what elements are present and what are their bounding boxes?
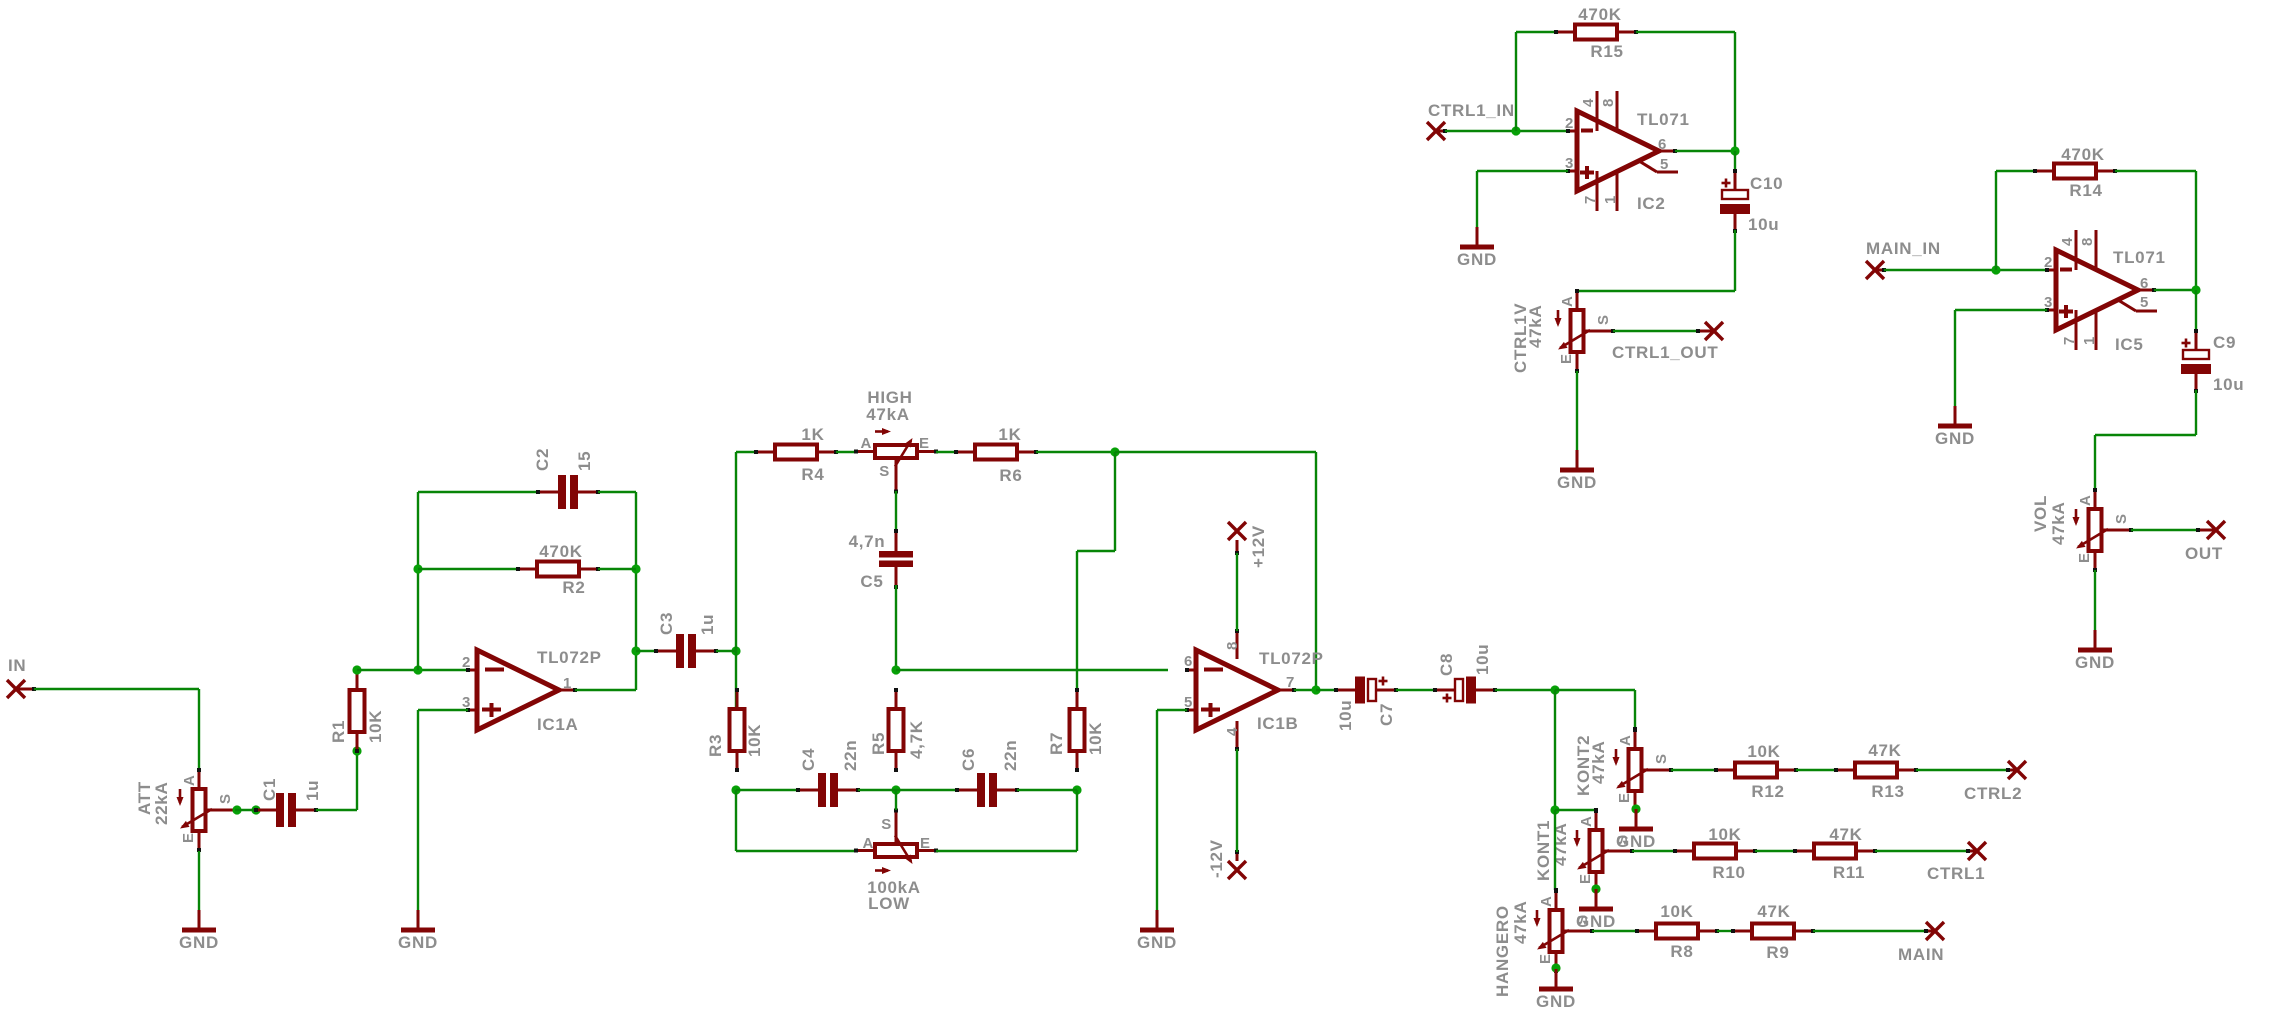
svg-text:R5: R5	[869, 732, 888, 755]
svg-text:4,7K: 4,7K	[907, 720, 926, 759]
svg-text:GND: GND	[179, 933, 219, 952]
value 10K of R3	[745, 724, 764, 757]
pin number 1 of IC1A	[563, 675, 572, 692]
svg-text:470K: 470K	[2061, 145, 2104, 164]
pin label E of KONT2	[1616, 792, 1633, 803]
pin label A of KONT1	[1578, 815, 1595, 827]
name label C9	[2213, 333, 2236, 352]
pin number 6 of IC1B	[1184, 653, 1193, 670]
junction HANGERO E	[1551, 963, 1560, 972]
name label R2	[562, 578, 585, 597]
junction CTRL1_IN / R15	[1511, 126, 1520, 135]
ground below IC5 pin3	[1938, 406, 1972, 426]
ground below KONT1	[1579, 889, 1613, 909]
wire center to C6	[896, 789, 957, 791]
svg-text:GND: GND	[1137, 933, 1177, 952]
resistor R6	[954, 445, 1038, 460]
wire C7 to C8	[1396, 689, 1435, 691]
value 10u of C10	[1748, 215, 1779, 234]
pin label E of ATT	[180, 832, 197, 843]
value 47K of R11	[1829, 825, 1862, 844]
capacitor C5	[879, 529, 913, 589]
svg-text:A: A	[1538, 895, 1555, 907]
svg-text:A: A	[1617, 734, 1634, 746]
junction IC5 output	[2191, 285, 2200, 294]
wire C6 to R7	[1017, 789, 1077, 791]
pin stub CTRL1V A	[1575, 289, 1579, 310]
polarized capacitor C8	[1433, 677, 1497, 704]
label of ground below IC1A	[398, 933, 438, 952]
svg-text:22n: 22n	[841, 740, 860, 771]
pin label S of HANGERO	[1574, 914, 1591, 925]
name label C1	[260, 778, 279, 801]
name label R4	[801, 465, 824, 484]
junction R7 bottom	[1072, 785, 1081, 794]
wire HANGERO S to R8	[1592, 930, 1637, 932]
wire stub OUT	[2196, 528, 2216, 532]
svg-text:S: S	[1614, 834, 1631, 845]
svg-text:A: A	[2077, 494, 2094, 506]
svg-text:GND: GND	[2075, 653, 2115, 672]
label of ground below KONT1	[1576, 912, 1616, 931]
junction IC1B output	[1311, 685, 1320, 694]
wire R15 to output loop	[1636, 32, 1735, 151]
pin label A of CTRL1V	[1559, 295, 1576, 307]
name label IC5	[2115, 335, 2144, 354]
pin +12V	[1228, 522, 1246, 540]
svg-text:1K: 1K	[801, 425, 824, 444]
wire IN to ATT	[34, 689, 199, 770]
junction R3 bottom	[731, 785, 740, 794]
svg-text:C6: C6	[959, 748, 978, 771]
wire C1 to R1	[316, 751, 357, 810]
svg-text:8: 8	[1600, 98, 1617, 107]
junction to KONT1	[1550, 805, 1559, 814]
svg-text:R7: R7	[1047, 732, 1066, 755]
value 470K of R2	[539, 542, 582, 561]
node IN label	[8, 656, 26, 675]
label of ground below HANGERO	[1536, 992, 1576, 1011]
svg-text:7: 7	[1286, 674, 1295, 691]
capacitor C4	[796, 773, 860, 807]
svg-text:R8: R8	[1670, 942, 1693, 961]
resistor R11	[1793, 844, 1877, 859]
svg-text:GND: GND	[1935, 429, 1975, 448]
wire jog down to R7	[1077, 452, 1115, 750]
polarized capacitor C7	[1334, 677, 1398, 704]
value 1u of C1	[303, 780, 322, 801]
svg-text:S: S	[1653, 753, 1670, 764]
svg-text:CTRL1_OUT: CTRL1_OUT	[1612, 343, 1718, 362]
pin label S of VOL	[2113, 513, 2130, 524]
node CTRL1 label	[1927, 864, 1985, 883]
svg-text:7: 7	[1582, 195, 1599, 204]
pin label S of CTRL1V	[1595, 314, 1612, 325]
wire VOL S to OUT	[2131, 529, 2198, 531]
part value TL072P of IC1A	[537, 648, 602, 667]
svg-text:47K: 47K	[1868, 741, 1901, 760]
wire C9 to VOL	[2095, 390, 2196, 490]
value 470K of R14	[2061, 145, 2104, 164]
pin label A of VOL	[2077, 494, 2094, 506]
pin stub HANGERO A	[1554, 888, 1558, 910]
wire VOL E to GND	[2094, 570, 2096, 630]
name label C3	[657, 612, 676, 635]
svg-text:A: A	[1559, 295, 1576, 307]
svg-text:2: 2	[1565, 115, 1574, 132]
svg-text:E: E	[920, 835, 931, 852]
pin number 8 of IC5	[2079, 237, 2096, 246]
pin stub VOL A	[2093, 488, 2097, 509]
svg-text:10K: 10K	[1708, 825, 1741, 844]
capacitor C3	[654, 634, 718, 668]
junction R2 left	[413, 564, 422, 573]
pin MAIN	[1926, 922, 1944, 940]
wire to LOW pot A	[736, 790, 856, 851]
value 1K of R6	[998, 425, 1021, 444]
svg-text:A: A	[181, 774, 198, 786]
junction feedback at pin2	[413, 665, 422, 674]
name label CTRL1V	[1511, 303, 1530, 373]
label of ground below KONT2	[1616, 832, 1656, 851]
svg-text:4: 4	[2059, 237, 2076, 246]
name label HIGH	[867, 388, 912, 407]
svg-text:1u: 1u	[698, 614, 717, 635]
part value TL071 of IC5	[2113, 248, 2166, 267]
name label IC2	[1637, 194, 1666, 213]
label of ground below IC5 pin3	[1935, 429, 1975, 448]
potentiometer HANGERO	[1534, 889, 1595, 973]
svg-text:GND: GND	[1557, 473, 1597, 492]
pin number 4 of IC5	[2059, 237, 2076, 246]
resistor R10	[1673, 844, 1757, 859]
name label C7	[1377, 703, 1396, 726]
svg-text:470K: 470K	[1578, 5, 1621, 24]
svg-text:6: 6	[1184, 653, 1193, 670]
name label R5	[869, 732, 888, 755]
svg-text:R15: R15	[1590, 42, 1623, 61]
supply label +12V	[1249, 525, 1268, 568]
potentiometer KONT1	[1574, 809, 1635, 893]
svg-text:E: E	[919, 435, 930, 452]
resistor R4	[754, 445, 838, 460]
svg-text:E: E	[1616, 792, 1633, 803]
wire node down to HANGERO	[1554, 810, 1556, 890]
svg-text:S: S	[879, 463, 890, 480]
value 47kA of KONT2	[1589, 741, 1608, 784]
svg-text:1u: 1u	[303, 780, 322, 801]
ground below HANGERO	[1539, 969, 1573, 989]
name label R10	[1712, 863, 1745, 882]
capacitor C6	[955, 773, 1019, 807]
wire IC5 pin3 to GND	[1955, 310, 2047, 406]
wire R2 right	[598, 568, 636, 570]
svg-text:C5: C5	[860, 572, 883, 591]
svg-text:C4: C4	[799, 748, 818, 771]
wire pin4 to -12V	[1236, 749, 1238, 852]
svg-text:10u: 10u	[2213, 375, 2244, 394]
op-amp IC1B	[1185, 629, 1296, 751]
resistor R8	[1635, 924, 1719, 939]
pin label S of ATT	[217, 793, 234, 804]
svg-text:CTRL1: CTRL1	[1927, 864, 1985, 883]
label of ground below VOL	[2075, 653, 2115, 672]
pin number 6 of IC5	[2140, 275, 2149, 292]
pin number 7 of IC5	[2061, 336, 2078, 345]
node OUT label	[2185, 544, 2223, 563]
wire R6 to junction	[1036, 451, 1115, 453]
junction C3 right	[731, 646, 740, 655]
svg-text:R9: R9	[1766, 943, 1789, 962]
name label R13	[1871, 782, 1904, 801]
potentiometer HIGH	[854, 428, 938, 494]
junction KONT1 E	[1591, 884, 1600, 893]
value 47kA of HIGH	[866, 405, 909, 424]
svg-text:MAIN: MAIN	[1898, 945, 1944, 964]
svg-text:GND: GND	[1536, 992, 1576, 1011]
junction R1 top	[352, 665, 361, 674]
junction C3 left	[631, 646, 640, 655]
svg-text:-12V: -12V	[1207, 839, 1226, 878]
potentiometer CTRL1V	[1555, 289, 1616, 373]
wire MAIN_IN to pin2	[1884, 269, 2047, 271]
value 22n of C6	[1001, 740, 1020, 771]
potentiometer ATT	[177, 768, 238, 852]
ground below ATT	[182, 910, 216, 930]
svg-text:E: E	[1537, 953, 1554, 964]
value 47kA of CTRL1V	[1526, 305, 1545, 348]
svg-text:10K: 10K	[1660, 902, 1693, 921]
wire R4 row left	[736, 451, 756, 453]
wire IC5 output	[2154, 289, 2196, 291]
value 10K of R12	[1747, 742, 1780, 761]
svg-text:10K: 10K	[1747, 742, 1780, 761]
ground below IC1A	[401, 910, 435, 930]
svg-text:MAIN_IN: MAIN_IN	[1866, 239, 1941, 258]
resistor R15	[1554, 25, 1638, 40]
svg-text:5: 5	[2140, 294, 2149, 311]
part value TL071 of IC2	[1637, 110, 1690, 129]
svg-text:10u: 10u	[1748, 215, 1779, 234]
ground below IC2 pin3	[1460, 227, 1494, 247]
wire bottom row left	[736, 789, 798, 791]
label of ground below IC2 pin3	[1457, 250, 1497, 269]
wire node down	[1554, 690, 1556, 810]
wire R4 to HIGH pot	[836, 451, 856, 453]
pin number 1 of IC5	[2081, 336, 2098, 345]
value 4,7K of R5	[907, 720, 926, 759]
svg-text:LOW: LOW	[868, 894, 910, 913]
junction IC2 output	[1730, 146, 1739, 155]
wire HIGH S to C5	[895, 491, 897, 531]
pin number 5 of IC1B	[1184, 694, 1193, 711]
pin number 5 of IC2	[1660, 156, 1669, 173]
wire stub at IN	[16, 687, 36, 691]
wire R11 to CTRL1	[1875, 850, 1968, 852]
svg-text:47kA: 47kA	[1526, 305, 1545, 348]
wire stub +12V	[1235, 540, 1239, 555]
svg-text:15: 15	[575, 451, 594, 471]
svg-text:TL071: TL071	[2113, 248, 2166, 267]
pin label E of KONT1	[1577, 873, 1594, 884]
svg-text:47kA: 47kA	[866, 405, 909, 424]
junction R1 bottom	[352, 746, 361, 755]
pin label E of LOW	[920, 835, 931, 852]
pin CTRL2	[2008, 761, 2026, 779]
wire R14 to output loop	[2115, 171, 2196, 290]
svg-text:IC1A: IC1A	[537, 715, 579, 734]
name label C5	[860, 572, 883, 591]
svg-text:R3: R3	[706, 734, 725, 757]
pin label A of KONT2	[1617, 734, 1634, 746]
wire C4 to center	[858, 789, 896, 791]
svg-text:10K: 10K	[745, 724, 764, 757]
name label ATT	[135, 781, 154, 815]
name label R11	[1833, 863, 1865, 882]
value 10K of R1	[366, 710, 385, 743]
wire output to C9	[2195, 290, 2197, 332]
ground below CTRL1V	[1560, 450, 1594, 470]
wire IC1A pin3 to GND	[418, 710, 468, 910]
pin number 5 of IC5	[2140, 294, 2149, 311]
op-amp IC5	[2045, 230, 2157, 350]
polarized capacitor C10	[1720, 169, 1750, 233]
value 100kA of LOW	[867, 878, 921, 897]
name label VOL	[2031, 495, 2050, 532]
potentiometer LOW	[854, 809, 938, 875]
value 15 of C2	[575, 451, 594, 471]
supply label -12V	[1207, 839, 1226, 878]
ground below IC1B	[1140, 910, 1174, 930]
wire stub MAIN	[1924, 929, 1935, 933]
value 10K of R7	[1086, 722, 1105, 755]
svg-text:C8: C8	[1437, 653, 1456, 676]
name label R9	[1766, 943, 1789, 962]
wire R1 to IC1A pin2	[357, 669, 468, 671]
pin number 7 of IC1B	[1286, 674, 1295, 691]
resistor R9	[1731, 924, 1815, 939]
node CTRL2 label	[1964, 784, 2022, 803]
pin OUT	[2207, 521, 2225, 539]
svg-text:1: 1	[1602, 195, 1619, 204]
svg-text:R12: R12	[1751, 782, 1784, 801]
wire C8 to node	[1495, 689, 1555, 691]
pin label E of HIGH	[919, 435, 930, 452]
name label LOW	[868, 894, 910, 913]
svg-text:GND: GND	[1457, 250, 1497, 269]
svg-text:8: 8	[1224, 641, 1241, 650]
wire KONT1 S to R10	[1632, 850, 1675, 852]
svg-text:IC1B: IC1B	[1257, 714, 1299, 733]
svg-text:1: 1	[2081, 336, 2098, 345]
svg-text:TL072P: TL072P	[1259, 649, 1324, 668]
wire R15 loop left	[1516, 32, 1556, 131]
junction after C8	[1550, 685, 1559, 694]
wire +12V to pin8	[1236, 553, 1238, 631]
svg-text:C10: C10	[1750, 174, 1783, 193]
svg-text:7: 7	[2061, 336, 2078, 345]
capacitor C2	[536, 475, 600, 509]
pin number 4 of IC2	[1580, 98, 1597, 107]
wire stub CTRL2	[2006, 768, 2017, 772]
svg-text:470K: 470K	[539, 542, 582, 561]
junction R6 right	[1110, 447, 1119, 456]
pin label A of ATT	[181, 774, 198, 786]
svg-text:E: E	[2076, 552, 2093, 563]
pin number 2 of IC5	[2044, 254, 2053, 271]
name label C8	[1437, 653, 1456, 676]
pin label E of HANGERO	[1537, 953, 1554, 964]
pin -12V	[1228, 861, 1246, 879]
pin CTRL1_OUT	[1705, 322, 1723, 340]
value 22n of C4	[841, 740, 860, 771]
resistor R12	[1714, 763, 1798, 778]
svg-text:TL072P: TL072P	[537, 648, 602, 667]
op-amp IC1A	[466, 650, 577, 730]
wire left vertical of tone stack	[735, 452, 737, 750]
value 10u of C8	[1473, 644, 1492, 675]
value 1K of R4	[801, 425, 824, 444]
resistor R3	[730, 688, 745, 772]
svg-text:R2: R2	[562, 578, 585, 597]
junction C4 C6 R5	[891, 785, 900, 794]
potentiometer KONT2	[1613, 728, 1674, 812]
wire IC2 output	[1675, 150, 1735, 152]
svg-text:+12V: +12V	[1249, 525, 1268, 568]
svg-text:S: S	[217, 793, 234, 804]
ground below KONT2	[1619, 809, 1653, 829]
value 470K of R15	[1578, 5, 1621, 24]
svg-text:R6: R6	[999, 466, 1022, 485]
svg-text:47kA: 47kA	[2049, 502, 2068, 545]
wire stub CTRL1_OUT	[1696, 329, 1714, 333]
wire IC1B pin5 to GND	[1157, 710, 1187, 910]
value 1u of C3	[698, 614, 717, 635]
svg-text:5: 5	[1660, 156, 1669, 173]
pin number 6 of IC2	[1658, 136, 1667, 153]
svg-text:4: 4	[1580, 98, 1597, 107]
svg-text:OUT: OUT	[2185, 544, 2223, 563]
name label C6	[959, 748, 978, 771]
label of ground below ATT	[179, 933, 219, 952]
wire ATT S to C1	[235, 809, 256, 811]
wire output to C7	[1316, 689, 1336, 691]
name label R7	[1047, 732, 1066, 755]
pin number 1 of IC2	[1602, 195, 1619, 204]
svg-text:10u: 10u	[1473, 644, 1492, 675]
ground below VOL	[2078, 630, 2112, 650]
junction C5 / R5 / IC1B pin6	[891, 665, 900, 674]
svg-text:47kA: 47kA	[1511, 901, 1530, 944]
wire C3 to tone network	[716, 650, 736, 652]
resistor R1	[350, 669, 365, 753]
svg-text:S: S	[2113, 513, 2130, 524]
value 47kA of HANGERO	[1511, 901, 1530, 944]
pin CTRL1_IN	[1427, 122, 1445, 140]
wire IC1A output	[575, 689, 636, 691]
svg-text:2: 2	[2044, 254, 2053, 271]
svg-text:C9: C9	[2213, 333, 2236, 352]
wire R13 to CTRL2	[1916, 769, 2008, 771]
svg-text:R13: R13	[1871, 782, 1904, 801]
wire to C3	[636, 650, 656, 652]
svg-text:1: 1	[563, 675, 572, 692]
svg-text:E: E	[1558, 353, 1575, 364]
value 4,7n of C5	[849, 532, 886, 551]
svg-text:GND: GND	[398, 933, 438, 952]
value 10K of R8	[1660, 902, 1693, 921]
svg-text:C1: C1	[260, 778, 279, 801]
